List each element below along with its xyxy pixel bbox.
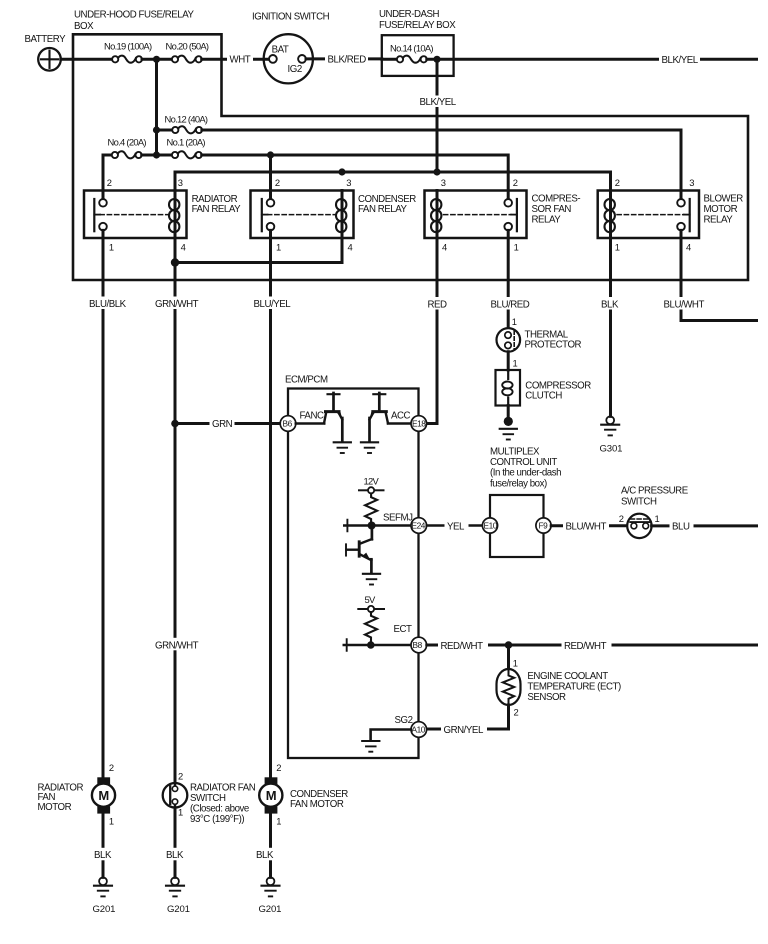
svg-text:MOTOR: MOTOR — [38, 802, 72, 813]
svg-text:fuse/relay box): fuse/relay box) — [490, 478, 547, 489]
svg-text:B6: B6 — [283, 419, 293, 429]
svg-text:1: 1 — [109, 815, 114, 826]
svg-text:1: 1 — [109, 241, 114, 252]
wire SEFMJ line — [344, 524, 411, 527]
svg-text:B8: B8 — [413, 640, 423, 650]
wire BLU/RED compressor pin1 to thermal protector — [507, 230, 510, 328]
svg-text:BAT: BAT — [272, 45, 289, 56]
svg-text:UNDER-DASH: UNDER-DASH — [379, 9, 440, 20]
svg-text:BLK: BLK — [94, 850, 112, 861]
wire No.4 line left corner down to radiator relay pin2 — [103, 155, 112, 199]
fuse No.12 40A — [172, 126, 202, 133]
svg-text:BLK: BLK — [601, 299, 619, 310]
svg-text:ENGINE COOLANT: ENGINE COOLANT — [527, 671, 608, 682]
resistor R1 from 12V — [365, 493, 377, 525]
node No.12 junction — [153, 126, 160, 133]
svg-text:3: 3 — [689, 177, 694, 188]
wire GRN/WHT down to fan switch — [174, 263, 177, 784]
battery — [38, 48, 61, 71]
fuse No.1 20A — [172, 151, 202, 158]
svg-text:5V: 5V — [365, 594, 377, 605]
svg-text:FAN RELAY: FAN RELAY — [358, 204, 408, 215]
wire BLK blower pin1 to G301 — [609, 230, 612, 416]
svg-text:ECM/PCM: ECM/PCM — [285, 374, 328, 385]
node compressor coil junction — [433, 168, 440, 175]
ground SG2 — [362, 741, 379, 752]
svg-text:E24: E24 — [412, 521, 426, 531]
svg-text:F9: F9 — [539, 521, 549, 531]
svg-text:93°C (199°F)): 93°C (199°F)) — [190, 814, 244, 825]
svg-text:CLUTCH: CLUTCH — [525, 391, 562, 402]
svg-text:E18: E18 — [412, 419, 426, 429]
BLK label motor2 — [254, 848, 278, 861]
svg-text:No.20 (50A): No.20 (50A) — [166, 40, 209, 51]
svg-text:2: 2 — [107, 177, 112, 188]
svg-text:G301: G301 — [600, 444, 623, 455]
wire fan switch to ground — [174, 808, 177, 878]
wire BLU/WHT blower pin4 to right edge — [681, 230, 757, 320]
svg-text:No.14 (10A): No.14 (10A) — [390, 43, 433, 54]
node GRN branch — [171, 420, 179, 428]
blower relay coil — [605, 199, 615, 232]
wire BLK/YEL vertical from under-dash fuse — [436, 59, 439, 172]
svg-text:BLU/RED: BLU/RED — [491, 299, 530, 310]
blower relay dashed link — [617, 214, 684, 216]
radiator relay coil — [169, 199, 179, 232]
svg-text:BLOWER: BLOWER — [704, 193, 744, 204]
node ECT resistor junction — [367, 641, 375, 649]
svg-text:ECT: ECT — [394, 624, 413, 635]
blower relay coil lead — [609, 191, 612, 239]
svg-text:1: 1 — [513, 658, 518, 669]
motor M1 radiator fan — [92, 777, 115, 813]
GRN/WHT label — [153, 297, 198, 310]
relay CONDENSER FAN RELAY box — [251, 191, 354, 239]
condenser relay switch — [262, 199, 275, 231]
connector E24 — [411, 518, 427, 534]
svg-text:2: 2 — [615, 177, 620, 188]
wire GRN from GRN/WHT to B6 — [175, 422, 281, 425]
svg-text:RED: RED — [428, 299, 448, 310]
svg-text:RELAY: RELAY — [532, 214, 562, 225]
svg-text:SOR FAN: SOR FAN — [532, 204, 572, 215]
ECM/PCM box — [288, 389, 419, 759]
svg-text:BLU/WHT: BLU/WHT — [566, 521, 607, 532]
svg-text:4: 4 — [442, 241, 447, 252]
node ECT sensor branch — [505, 641, 513, 649]
svg-text:A/C PRESSURE: A/C PRESSURE — [621, 486, 689, 497]
svg-text:1: 1 — [178, 806, 183, 817]
svg-text:4: 4 — [348, 241, 353, 252]
svg-text:2: 2 — [178, 771, 183, 782]
svg-text:CONTROL UNIT: CONTROL UNIT — [490, 457, 557, 468]
wire coil feed line y172 — [175, 172, 611, 191]
svg-text:BLK/YEL: BLK/YEL — [662, 55, 699, 66]
relay BLOWER MOTOR RELAY box — [598, 191, 699, 239]
svg-text:E10: E10 — [484, 521, 498, 531]
ignition switch — [264, 34, 313, 83]
fuse No.4 20A — [112, 151, 142, 158]
svg-text:GRN: GRN — [212, 419, 233, 430]
BLK label motor1 — [92, 848, 116, 861]
svg-text:G201: G201 — [259, 904, 282, 915]
condenser relay coil — [336, 199, 346, 232]
ground G201 fan switch — [166, 877, 184, 896]
wire E24 to E10 — [427, 524, 483, 527]
svg-text:TEMPERATURE (ECT): TEMPERATURE (ECT) — [527, 681, 621, 692]
svg-text:UNDER-HOOD FUSE/RELAY: UNDER-HOOD FUSE/RELAY — [74, 10, 195, 21]
wire thermal to clutch — [507, 352, 510, 370]
svg-text:3: 3 — [178, 177, 183, 188]
svg-text:2: 2 — [619, 513, 624, 524]
svg-text:1: 1 — [512, 316, 517, 327]
svg-text:1: 1 — [513, 358, 518, 369]
resistor R2 from 5V — [365, 612, 377, 645]
svg-text:RELAY: RELAY — [704, 214, 734, 225]
wire fuse14 to right edge BLK/YEL — [427, 58, 757, 61]
connector E18 — [411, 416, 427, 432]
wire F9 to A/C switch — [551, 524, 628, 527]
fuse No.20 50A — [172, 56, 202, 63]
blower relay switch — [677, 199, 690, 231]
svg-text:BLK/RED: BLK/RED — [328, 55, 367, 66]
BLU label — [670, 520, 694, 533]
wire E18 base lead — [388, 422, 411, 425]
under-hood fuse/relay box outline — [73, 34, 748, 280]
radiator relay dashed link — [100, 214, 169, 216]
RED label — [425, 297, 450, 310]
connector A10 — [411, 722, 427, 738]
svg-text:No.1 (20A): No.1 (20A) — [167, 137, 206, 148]
BLU/WHT label — [661, 297, 707, 310]
svg-text:1: 1 — [276, 815, 281, 826]
BLU/YEL label — [251, 297, 294, 310]
svg-text:BLU/WHT: BLU/WHT — [664, 299, 705, 310]
svg-text:1: 1 — [655, 513, 660, 524]
svg-text:GRN/YEL: GRN/YEL — [444, 725, 484, 736]
motor M2 condenser fan — [259, 777, 282, 813]
svg-text:COMPRES-: COMPRES- — [532, 193, 581, 204]
wire RED compressor pin4 to ECM E18 — [427, 238, 438, 424]
svg-text:G201: G201 — [93, 904, 116, 915]
node junction top — [153, 56, 160, 63]
svg-text:G201: G201 — [167, 904, 190, 915]
svg-text:1: 1 — [276, 241, 281, 252]
svg-text:BLK/YEL: BLK/YEL — [420, 97, 457, 108]
BLK/YEL label right — [659, 53, 700, 65]
svg-text:No.4 (20A): No.4 (20A) — [108, 137, 147, 148]
wire clutch to ground — [507, 406, 510, 420]
wire fuse box down-line — [155, 59, 158, 155]
compressor clutch box — [496, 370, 521, 406]
svg-text:ACC: ACC — [391, 410, 411, 421]
pin tbar SEFMJ — [346, 520, 348, 532]
svg-text:M: M — [98, 788, 109, 803]
wire B8 to right edge RED/WHT — [427, 644, 757, 647]
wire motor2 to ground — [269, 814, 272, 878]
svg-text:GRN/WHT: GRN/WHT — [155, 640, 199, 651]
GRN label — [210, 417, 235, 429]
wire A10 to ground — [371, 730, 411, 740]
transistor Q2 ACC — [370, 393, 389, 441]
node No.1/No.4 junction — [153, 151, 160, 158]
ground Q2 — [361, 442, 378, 453]
BLK/YEL label vertical wire — [417, 96, 457, 108]
svg-text:4: 4 — [181, 241, 186, 252]
svg-text:SWITCH: SWITCH — [621, 497, 657, 508]
svg-text:YEL: YEL — [447, 521, 465, 532]
A/C pressure switch — [627, 514, 651, 538]
svg-text:FUSE/RELAY BOX: FUSE/RELAY BOX — [379, 20, 456, 31]
relay COMPRESSOR FAN RELAY box — [425, 191, 527, 239]
wire ECT line — [344, 644, 411, 647]
wire ignition to under-dash box — [306, 57, 382, 60]
svg-text:SEFMJ: SEFMJ — [383, 513, 413, 524]
ground G201 motor1 — [94, 877, 112, 896]
wire condenser relay pin2 drop — [269, 155, 272, 199]
node condenser pin2 branch — [267, 151, 274, 158]
wire fuse19 to fuse20 — [142, 58, 172, 61]
compressor relay dashed link — [444, 214, 512, 216]
BLU/WHT label ac — [563, 519, 609, 531]
svg-text:2: 2 — [513, 177, 518, 188]
wire motor1 to ground — [102, 814, 105, 878]
condenser relay coil lead — [341, 191, 344, 263]
svg-text:3: 3 — [441, 177, 446, 188]
RED/WHT label 1 — [438, 639, 488, 651]
svg-text:A10: A10 — [412, 725, 426, 735]
wire battery to fuse No.19 — [61, 58, 112, 61]
node condenser coil junction — [338, 168, 345, 175]
GRN/YEL label — [441, 723, 487, 735]
svg-text:1: 1 — [514, 241, 519, 252]
connector E10 — [482, 518, 497, 533]
RED/WHT label 2 — [562, 639, 612, 651]
wire sensor to A10 line — [427, 705, 509, 729]
node pin4 tie junction — [171, 258, 179, 266]
BLU/RED label — [488, 297, 531, 310]
radiator relay switch — [94, 199, 107, 231]
svg-text:M: M — [266, 788, 277, 803]
svg-text:No.19 (100A): No.19 (100A) — [104, 40, 152, 51]
wire BLU/BLK radiator pin1 down to motor — [102, 230, 105, 777]
ECT sensor — [497, 669, 521, 705]
svg-text:BLU: BLU — [672, 522, 690, 533]
connector B8 — [411, 637, 427, 653]
resistor R3 ECT sensor — [503, 670, 514, 704]
wire to fuse No.12 — [157, 129, 173, 132]
svg-text:12V: 12V — [364, 476, 380, 487]
svg-text:No.12 (40A): No.12 (40A) — [165, 114, 208, 125]
svg-text:2: 2 — [514, 707, 519, 718]
svg-text:MOTOR: MOTOR — [704, 204, 738, 215]
ground clutch — [504, 417, 513, 426]
connector B6 — [280, 416, 296, 432]
relay RADIATOR FAN RELAY box — [84, 191, 187, 239]
under-dash fuse/relay box — [382, 35, 454, 76]
svg-text:BLK: BLK — [256, 850, 274, 861]
BLU/BLK label — [87, 297, 130, 310]
svg-text:2: 2 — [275, 177, 280, 188]
thermal protector — [497, 328, 521, 352]
svg-text:BLU/YEL: BLU/YEL — [254, 299, 292, 310]
svg-text:2: 2 — [276, 762, 281, 773]
svg-text:1: 1 — [615, 241, 620, 252]
svg-text:3: 3 — [346, 177, 351, 188]
wire to ECT sensor — [507, 645, 510, 669]
svg-text:4: 4 — [686, 241, 691, 252]
svg-text:RED/WHT: RED/WHT — [441, 641, 484, 652]
ground G201 motor2 — [262, 877, 280, 896]
connector F9 — [536, 518, 551, 533]
wire No.12 to blower relay pin3 — [202, 130, 681, 199]
condenser relay dashed link — [268, 214, 336, 216]
ground G301 — [601, 416, 619, 435]
compressor relay coil — [431, 199, 441, 232]
node under-dash junction — [433, 56, 440, 63]
wire B6 base lead — [296, 422, 324, 425]
multiplex control unit box — [490, 495, 544, 557]
svg-text:(In the under-dash: (In the under-dash — [490, 468, 561, 479]
fuse No.19 100A — [112, 56, 142, 63]
pin tbar ECT — [346, 639, 348, 651]
transistor Q1 FANC — [324, 393, 342, 441]
svg-text:FAN RELAY: FAN RELAY — [192, 204, 242, 215]
wire A/C switch to right edge BLU — [652, 524, 757, 527]
svg-text:SG2: SG2 — [395, 715, 413, 726]
wire BLU/YEL condenser pin1 down to motor — [269, 230, 272, 777]
YEL label — [445, 519, 469, 531]
wire between fuses No.4 and No.1 — [142, 154, 172, 157]
svg-text:FANC: FANC — [300, 410, 324, 421]
svg-text:IGNITION SWITCH: IGNITION SWITCH — [252, 12, 330, 23]
svg-text:GRN/WHT: GRN/WHT — [155, 299, 199, 310]
svg-text:BOX: BOX — [74, 21, 94, 32]
wire fuse20 to ignition switch — [202, 58, 269, 61]
svg-text:WHT: WHT — [230, 55, 251, 66]
svg-text:(Closed: above: (Closed: above — [190, 803, 249, 814]
GRN/WHT label mid — [153, 638, 198, 651]
compressor clutch coil — [507, 370, 509, 379]
svg-text:BLU/BLK: BLU/BLK — [89, 299, 127, 310]
BLK label — [598, 297, 623, 310]
ground Q1 — [334, 442, 351, 453]
svg-text:FAN MOTOR: FAN MOTOR — [290, 799, 344, 810]
radiator fan switch — [163, 783, 188, 808]
svg-text:SWITCH: SWITCH — [190, 793, 226, 804]
svg-text:PROTECTOR: PROTECTOR — [525, 340, 582, 351]
WHT label — [227, 53, 253, 65]
svg-text:IG2: IG2 — [288, 64, 302, 75]
BLK/RED label — [325, 53, 368, 65]
wire radiator pin4 to condenser pin4 tie — [175, 261, 342, 264]
svg-text:BATTERY: BATTERY — [25, 34, 67, 45]
svg-text:RED/WHT: RED/WHT — [564, 641, 607, 652]
svg-text:2: 2 — [109, 762, 114, 773]
radiator relay coil lead — [174, 191, 177, 263]
svg-text:BLK: BLK — [166, 850, 184, 861]
BLK label fan switch — [164, 848, 188, 861]
transistor Q3 — [346, 527, 372, 573]
svg-text:SENSOR: SENSOR — [527, 692, 566, 703]
ground Q3 — [363, 574, 380, 585]
node SEFMJ junction — [368, 522, 376, 530]
fuse No.14 10A — [397, 56, 427, 63]
compressor relay switch — [504, 199, 517, 231]
wire No.1 line to compressor relay pin2 — [202, 155, 509, 199]
compressor relay coil lead — [436, 191, 439, 239]
wire into fuse No.14 — [382, 58, 397, 61]
